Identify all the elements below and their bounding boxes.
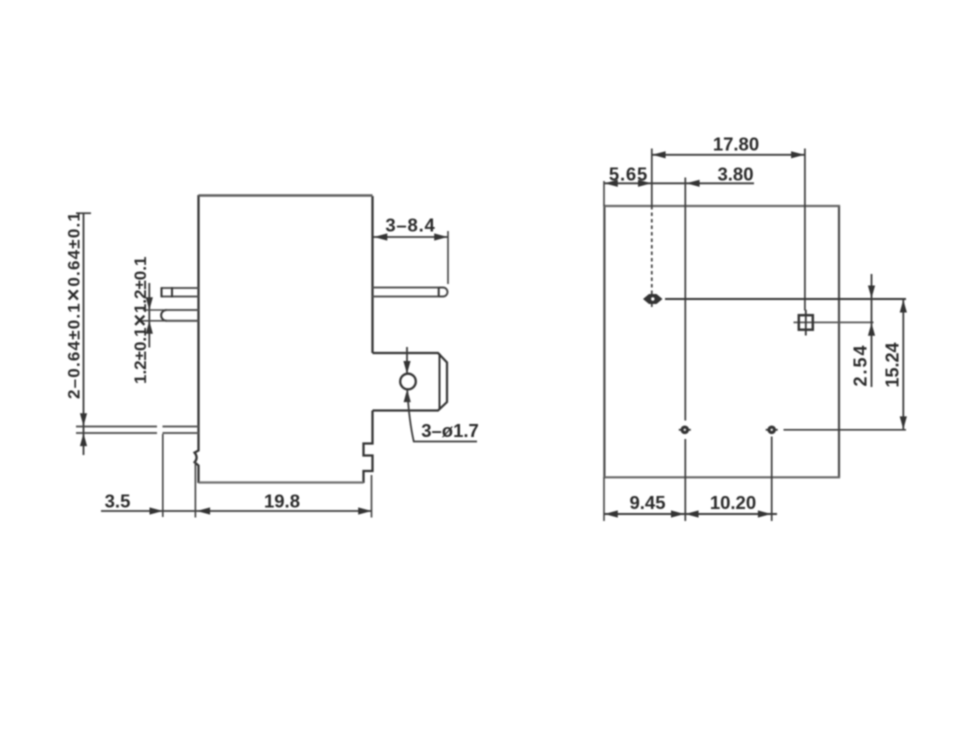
dimension 2-0.64 arrow down — [80, 413, 87, 426]
dimension 3-8.4 extension line — [447, 231, 449, 284]
bottom dim line (3.5 / 19.8) — [101, 510, 372, 512]
pin bottom-left top line — [76, 426, 199, 428]
dimension 3-8.4 arrow right — [434, 233, 447, 240]
svg-text:9.45: 9.45 — [629, 492, 665, 513]
extension line body left — [194, 462, 196, 518]
pin right tick — [438, 288, 440, 297]
hole diameter arrow down — [403, 361, 410, 374]
hole diameter arrow up — [404, 389, 411, 402]
dimension 5.65 arrow right — [638, 180, 651, 187]
pin middle-left top line — [166, 309, 199, 311]
bottom dim line (9.45/10.20) — [604, 513, 777, 515]
dimension 2-0.64 top tick — [76, 212, 91, 214]
pin bottom-left bottom line — [76, 432, 199, 434]
dimension 15.24 arrow down — [900, 416, 907, 429]
hole 3 pad symbol — [679, 429, 691, 431]
dimension 15.24 arrow up — [900, 300, 907, 313]
pin upper-left top line — [162, 287, 199, 289]
tab hole circle — [400, 374, 416, 390]
dimension 1.2 arrow up — [146, 321, 153, 334]
dimension 15.24 line — [902, 299, 904, 430]
dimension 9.45 arrow right — [671, 510, 684, 517]
svg-text:2–0.64±0.1✕0.64±0.1: 2–0.64±0.1✕0.64±0.1 — [65, 211, 84, 399]
pin upper-left end cap — [160, 287, 162, 297]
dimension 2-0.64 arrow up — [80, 433, 87, 446]
tab bend line — [439, 354, 441, 411]
pin middle-left rounded cap — [161, 310, 166, 321]
extension line pin end — [162, 434, 164, 517]
arrow right at 3.5 left end — [150, 507, 163, 514]
relay body bottom edge — [199, 481, 364, 483]
hole4 row line — [784, 429, 907, 431]
arrow right at 19.8 end — [358, 507, 371, 514]
dimension 10.20 arrow left — [685, 510, 698, 517]
dimension 5.65/3.80 line — [604, 182, 754, 184]
pin middle-left bottom line — [166, 320, 199, 322]
hole 2 square pad — [799, 315, 813, 330]
dimension 1.2 extension bottom — [139, 320, 167, 322]
hole 4 extension down — [771, 437, 773, 522]
relay body outline (side view) — [195, 195, 373, 483]
centerline hole3 column — [684, 178, 686, 522]
quick-connect tab outline — [373, 353, 448, 411]
dimension 2.54 line — [871, 274, 873, 387]
extension line body right — [371, 475, 373, 518]
dimension 2-0.64 line — [83, 213, 85, 456]
dimension 5.65 arrow left — [605, 180, 618, 187]
svg-text:1.2±0.1✕1.2±0.1: 1.2±0.1✕1.2±0.1 — [131, 257, 150, 384]
svg-text:3–ø1.7: 3–ø1.7 — [421, 420, 479, 441]
pin right tip — [439, 288, 448, 297]
extension line hole2 column — [804, 149, 806, 311]
dimension 17.80 arrow right — [791, 151, 804, 158]
extension line at hole1 column (solid above board) — [651, 149, 653, 207]
svg-text:17.80: 17.80 — [713, 134, 759, 155]
extension line board left top — [603, 181, 605, 206]
pin upper-left bottom line — [162, 295, 199, 297]
dimension 3-8.4 line — [374, 236, 449, 238]
centerline dashed hole1 column — [651, 206, 653, 307]
hole2 row line — [794, 321, 874, 323]
hole 4 pad symbol — [766, 429, 778, 431]
svg-text:2.54: 2.54 — [851, 343, 871, 386]
svg-text:10.20: 10.20 — [710, 492, 756, 513]
hole leader line — [407, 389, 477, 441]
pin upper-left fold tick — [171, 287, 173, 297]
dimension 17.80 arrow left — [652, 151, 665, 158]
dimension 1.2 arrow down — [146, 297, 153, 310]
pin right top line — [373, 287, 440, 289]
svg-text:3–8.4: 3–8.4 — [385, 215, 435, 236]
hole 2 vertical tick — [805, 310, 807, 336]
dimension 1.2 line — [148, 283, 150, 348]
dimension 3.80 arrow — [686, 180, 699, 187]
svg-text:15.24: 15.24 — [883, 342, 903, 387]
hole1 row line — [665, 298, 906, 300]
hole diameter dim line top — [406, 347, 408, 374]
hole 1 pad symbol — [643, 294, 663, 304]
extension board left bottom — [603, 477, 605, 521]
dimension 3-8.4 arrow left — [374, 233, 387, 240]
svg-text:3.80: 3.80 — [717, 164, 753, 185]
pin right bottom line — [373, 296, 440, 298]
dimension 10.20 arrow right — [758, 510, 771, 517]
dimension 1.2 extension top — [143, 309, 166, 311]
arrow left at body edge — [197, 507, 210, 514]
relay body top edge — [199, 194, 373, 196]
PCB layout rectangle vertical edges (bottom view) — [604, 206, 839, 477]
dimension 2.54 arrow down — [868, 286, 875, 299]
dimension 17.80 line — [652, 154, 805, 156]
PCB layout rectangle horizontal edges — [603, 206, 840, 477]
dimension 2.54 arrow up — [868, 323, 875, 336]
svg-text:3.5: 3.5 — [105, 491, 131, 512]
svg-text:19.8: 19.8 — [264, 491, 300, 512]
dimension 9.45 arrow left — [605, 510, 618, 517]
